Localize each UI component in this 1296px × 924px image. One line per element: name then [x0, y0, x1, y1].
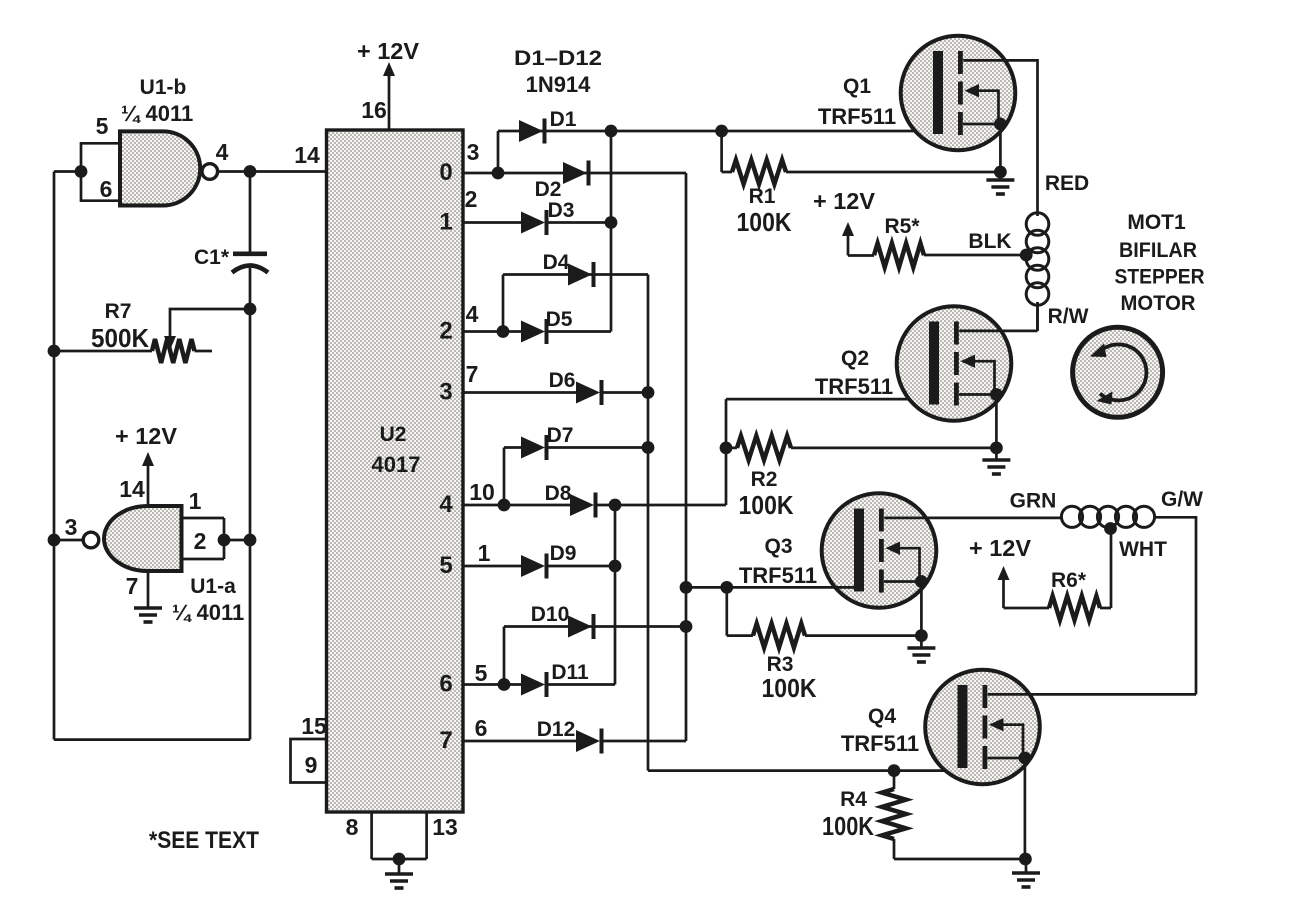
wire C1 top lead: [249, 172, 252, 253]
svg-text:5: 5: [96, 113, 109, 139]
node Q3 gate / R3: [720, 581, 733, 594]
resistor R1 100K: [732, 160, 786, 184]
svg-text:9: 9: [305, 752, 318, 778]
wire D1 line / Q1 gate line: [498, 130, 932, 133]
node D9/V2: [609, 560, 622, 573]
svg-text:D7: D7: [547, 424, 574, 447]
wire V2 vertical (D8-D9-D11): [614, 505, 617, 685]
transistor Q3 TRF511: [822, 493, 937, 608]
svg-text:C1*: C1*: [194, 246, 230, 269]
svg-text:+ 12V: + 12V: [357, 38, 420, 64]
NAND gate U1-a (1/4 4011, mirrored): [104, 506, 181, 571]
svg-text:R6*: R6*: [1051, 569, 1087, 592]
svg-text:D6: D6: [549, 369, 576, 392]
node winding1 center tap (BLK): [1020, 249, 1033, 262]
svg-text:TRF511: TRF511: [815, 374, 893, 399]
node D10/Q3 rail: [680, 620, 693, 633]
ground (Q3 source): [907, 646, 935, 650]
node left rail / R7: [48, 345, 61, 358]
wire U2 out6 stub: [463, 683, 521, 686]
svg-text:100K: 100K: [737, 207, 792, 237]
capacitor C1: [233, 252, 267, 257]
node C1 bottom / R7 wiper junction: [244, 303, 257, 316]
diode D4: [568, 264, 592, 286]
node out2 junction: [497, 325, 510, 338]
svg-text:+ 12V: + 12V: [115, 423, 178, 449]
wire Q4 source to ground: [1025, 758, 1026, 873]
diode D10: [568, 616, 592, 638]
node Q3 source / R3: [915, 629, 928, 642]
wire D10 line: [504, 625, 686, 628]
svg-text:0: 0: [439, 159, 452, 186]
svg-text:13: 13: [432, 814, 458, 840]
wire D4 branch riser: [502, 275, 505, 332]
diode D8: [570, 494, 594, 516]
wire Q3 gate line: [686, 586, 855, 589]
wire V3 vertical (D4-D6-D7) to Q4 gate: [648, 275, 957, 771]
svg-text:1: 1: [439, 209, 452, 236]
diode D2: [563, 162, 587, 184]
svg-text:4: 4: [466, 301, 479, 327]
diode D3: [521, 212, 545, 234]
svg-text:U1-b: U1-b: [140, 76, 187, 99]
svg-text:TRF511: TRF511: [841, 731, 919, 756]
resistor R6: [1004, 607, 1050, 610]
wire D3 line: [545, 221, 611, 224]
wire D6 line: [600, 391, 648, 394]
wire U1-b input bracket pins 5-6: [81, 143, 120, 200]
wire D5 line to V1: [503, 330, 611, 333]
svg-text:500K: 500K: [91, 323, 149, 353]
resistor R3 100K: [753, 624, 805, 648]
svg-text:6: 6: [100, 176, 113, 202]
wire R7 wiper branch: [170, 309, 250, 338]
wire U2 out5 stub: [463, 565, 521, 568]
node D1/V1: [605, 125, 618, 138]
wire D7 line: [504, 446, 648, 449]
svg-text:3: 3: [439, 379, 452, 406]
ground (U1-a pin 7): [134, 606, 162, 610]
svg-text:16: 16: [361, 97, 387, 123]
wire Q3 drain to winding 2: [884, 517, 1061, 520]
node D3/V1: [605, 216, 618, 229]
svg-text:2: 2: [465, 186, 478, 212]
node U1-a inputs / rail junction: [244, 534, 257, 547]
svg-text:Q2: Q2: [841, 347, 869, 370]
wire U2 out2 stub: [463, 330, 503, 333]
diode D12: [576, 730, 600, 752]
R7 wiper arrow: [164, 336, 176, 350]
diode D9: [521, 555, 545, 577]
wire U1-a output pin 3: [54, 539, 84, 542]
node D8/V2: [609, 499, 622, 512]
svg-text:+ 12V: + 12V: [969, 535, 1032, 561]
node D1/R1: [715, 125, 728, 138]
svg-text:1N914: 1N914: [526, 72, 592, 97]
svg-text:100K: 100K: [822, 811, 874, 841]
svg-text:BIFILAR: BIFILAR: [1119, 239, 1197, 262]
svg-text:100K: 100K: [762, 673, 817, 703]
svg-text:U2: U2: [380, 423, 407, 446]
transistor Q1 TRF511: [901, 36, 1016, 151]
resistor R2 100K: [737, 436, 791, 460]
wire V1 vertical (D1-D3-D5): [610, 131, 613, 332]
svg-text:100K: 100K: [739, 490, 794, 520]
NAND gate U1-b (1/4 4011): [120, 131, 200, 205]
node U1-b inputs junction: [75, 165, 88, 178]
svg-text:¼ 4011: ¼ 4011: [172, 600, 244, 625]
svg-text:R1: R1: [749, 185, 776, 208]
wire R1 riser: [722, 131, 732, 172]
wire D4 line: [503, 273, 648, 276]
node Q4 source / R4: [1019, 853, 1032, 866]
svg-text:RED: RED: [1045, 172, 1089, 195]
svg-text:D1: D1: [550, 108, 577, 131]
svg-text:¼ 4011: ¼ 4011: [121, 101, 193, 126]
node Q3 gate / rail: [680, 581, 693, 594]
svg-text:D2: D2: [535, 178, 562, 201]
node U1-a input bracket junction: [218, 534, 231, 547]
svg-text:8: 8: [346, 814, 359, 840]
wire D12 line to Q3 rail: [600, 740, 686, 743]
svg-text:D1–D12: D1–D12: [514, 47, 602, 70]
svg-text:5: 5: [475, 660, 488, 686]
svg-text:14: 14: [294, 142, 320, 168]
wire U1-a inputs to rail: [224, 539, 250, 542]
diode D1: [519, 120, 543, 142]
svg-text:*SEE TEXT: *SEE TEXT: [149, 827, 259, 854]
node out4 junction: [498, 499, 511, 512]
svg-text:Q3: Q3: [764, 535, 792, 558]
wire D9 line: [545, 565, 615, 568]
node out0 junction: [492, 167, 505, 180]
+12V supply arrow (R5): [847, 233, 850, 256]
wire D11 line to V2: [545, 683, 615, 686]
node pin4 / C1 junction: [244, 165, 257, 178]
svg-text:TRF511: TRF511: [818, 104, 896, 129]
svg-text:6: 6: [475, 715, 488, 741]
node left rail / U1-a output: [48, 534, 61, 547]
wire U1-a input bracket pins 1-2: [182, 518, 225, 559]
wire Q3 source to ground: [920, 582, 923, 649]
diode D11: [521, 674, 545, 696]
wire U2 out0 stub: [463, 172, 498, 175]
wire Q2 source to ground: [995, 395, 998, 461]
wire Q2 drain to motor coil: [959, 302, 1037, 331]
wire D1 branch riser: [497, 131, 500, 173]
resistor R5: [848, 254, 874, 257]
svg-text:1: 1: [189, 488, 202, 514]
svg-text:7: 7: [126, 573, 139, 599]
svg-text:2: 2: [194, 528, 207, 554]
svg-text:6: 6: [439, 671, 452, 698]
wire Q1 drain to motor coil: [963, 60, 1037, 205]
svg-text:D4: D4: [543, 251, 570, 274]
svg-text:Q1: Q1: [843, 75, 871, 98]
svg-text:Q4: Q4: [868, 705, 896, 728]
svg-text:R5*: R5*: [884, 215, 920, 238]
svg-text:1: 1: [478, 540, 491, 566]
wire U2 out3 stub: [463, 391, 576, 394]
svg-text:G/W: G/W: [1161, 488, 1203, 511]
wire U2 out1 stub: [463, 221, 521, 224]
wire U1-a pin 7 to ground: [147, 571, 150, 608]
ground (Q1 source): [986, 178, 1014, 182]
wire U1-b output to U2 pin 14: [217, 170, 327, 173]
+12V supply arrow (U2 pin 16): [388, 73, 391, 78]
node D6/V3: [642, 386, 655, 399]
diode D7: [521, 437, 545, 459]
transistor Q4 TRF511: [925, 670, 1040, 785]
transistor Q2 TRF511: [897, 306, 1012, 421]
svg-text:3: 3: [467, 139, 480, 165]
node Q1 source / R1: [994, 166, 1007, 179]
wire Q1 source to ground: [999, 124, 1002, 180]
wire R3 riser: [727, 587, 753, 635]
U2 pins 15/9 loop wire: [291, 739, 327, 783]
svg-text:MOTOR: MOTOR: [1121, 292, 1196, 315]
resistor R4 100K: [893, 771, 896, 789]
svg-text:D3: D3: [548, 199, 575, 222]
wire Q4 drain to winding 2 G/W: [988, 693, 1196, 696]
svg-text:WHT: WHT: [1119, 538, 1167, 561]
wire D10 branch riser: [503, 627, 506, 685]
svg-text:R/W: R/W: [1048, 305, 1089, 328]
svg-text:3: 3: [65, 514, 78, 540]
svg-text:10: 10: [469, 479, 495, 505]
wire left feedback rail: [53, 172, 56, 740]
diode D5: [521, 321, 545, 343]
svg-text:U1-a: U1-a: [190, 575, 236, 598]
svg-text:BLK: BLK: [968, 230, 1011, 253]
motor winding 1 (RED to R/W): [1036, 205, 1039, 216]
wire U2 pin 16 to +12V: [388, 76, 391, 130]
IC U2 4017 body: [327, 130, 464, 812]
svg-text:4: 4: [439, 491, 453, 518]
+12V supply arrow (U1-a pin 14): [147, 463, 150, 506]
wire U2 out4 stub: [463, 504, 570, 507]
svg-text:D9: D9: [550, 542, 577, 565]
svg-text:D10: D10: [531, 603, 570, 626]
node D7/V3: [642, 441, 655, 454]
ground (Q2 source): [982, 458, 1010, 462]
node Q2 source / R2: [990, 442, 1003, 455]
wire right feedback rail (below C1): [249, 268, 252, 740]
node out6 junction: [498, 678, 511, 691]
node Q4 gate / R4: [888, 764, 901, 777]
svg-text:STEPPER: STEPPER: [1115, 266, 1205, 289]
svg-text:D12: D12: [537, 718, 576, 741]
svg-text:D8: D8: [545, 482, 572, 505]
wire bottom feedback loop: [54, 738, 250, 741]
svg-text:D11: D11: [551, 661, 589, 684]
svg-text:4: 4: [216, 139, 229, 165]
svg-text:R7: R7: [105, 300, 132, 323]
svg-text:2: 2: [439, 318, 452, 345]
svg-text:7: 7: [439, 727, 452, 754]
motor winding 2 (GRN to G/W): [1061, 506, 1082, 527]
svg-text:15: 15: [301, 713, 327, 739]
svg-text:TRF511: TRF511: [739, 563, 817, 588]
ground (U2 pins 8/13): [385, 872, 413, 876]
wire D8 line to R2 riser: [594, 399, 726, 505]
node R2/D8 junction: [720, 442, 733, 455]
diode D6: [576, 382, 600, 404]
svg-text:14: 14: [119, 476, 145, 502]
svg-text:5: 5: [439, 552, 452, 579]
svg-text:GRN: GRN: [1010, 490, 1057, 513]
wire U1-b inputs to left rail: [54, 170, 81, 173]
+12V supply arrow (R6): [1002, 577, 1005, 608]
svg-text:7: 7: [466, 361, 479, 387]
wire U2 out7 stub: [463, 740, 576, 743]
wire Q2 gate line: [726, 398, 934, 401]
ground (Q4 source): [1012, 871, 1040, 875]
wire U2 pins 8/13 to ground: [372, 812, 427, 874]
svg-text:D5: D5: [546, 308, 573, 331]
wire D7 branch riser: [503, 448, 506, 506]
node winding2 center tap (WHT): [1104, 522, 1117, 535]
motor MOT1 rotation symbol: [1073, 327, 1163, 417]
svg-text:MOT1: MOT1: [1127, 211, 1186, 234]
svg-text:4017: 4017: [372, 452, 421, 477]
svg-text:R2: R2: [751, 468, 778, 491]
svg-text:R4: R4: [840, 788, 867, 811]
potentiometer R7 500K: [54, 350, 152, 353]
node pins 8-13 junction: [393, 853, 406, 866]
wire D2 line to Q3 gate rail: [498, 173, 686, 741]
svg-text:+ 12V: + 12V: [813, 188, 876, 214]
